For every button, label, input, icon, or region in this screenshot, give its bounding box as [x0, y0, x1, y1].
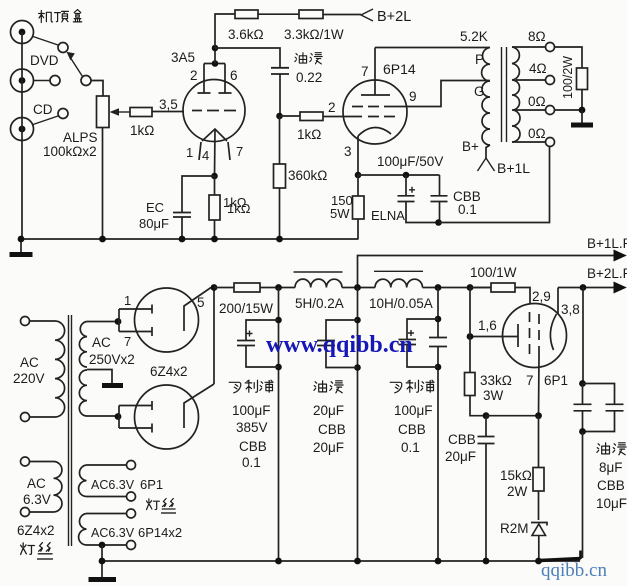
svg-text:7: 7	[236, 144, 243, 159]
hand-drawn thick rail end	[540, 551, 581, 561]
ground rail node at EC cap	[179, 236, 186, 243]
selector common contact	[81, 76, 91, 86]
filament winding AC6.3V for 6Z4	[30, 462, 62, 513]
node speaker return	[579, 107, 586, 114]
choke 5H/0.2A	[294, 272, 343, 288]
wire 6P1 cathode pin 7 down	[538, 356, 541, 416]
node 3A5 plate B+	[212, 45, 219, 52]
svg-text:100/1W: 100/1W	[470, 265, 517, 280]
B+2L off-page arrow	[361, 9, 373, 21]
svg-text:2W: 2W	[507, 484, 528, 499]
wire heater tap to bottom rail	[101, 545, 103, 561]
wire rectifier node to 200/15W	[214, 287, 234, 289]
svg-text:2: 2	[190, 68, 198, 83]
choke 10H/0.05A	[374, 271, 423, 287]
capacitor 油浸 0.22 coupling	[271, 68, 289, 116]
svg-text:5: 5	[197, 295, 205, 310]
wire feedback to OPT secondary 0Ω	[439, 147, 550, 223]
RCA jack J1 set-top box input	[11, 21, 34, 44]
svg-text:B+1L.R: B+1L.R	[587, 236, 627, 251]
terminal 0Ω upper	[546, 106, 555, 115]
svg-text:AC6.3V: AC6.3V	[91, 478, 135, 492]
mains terminal lower	[21, 413, 30, 422]
svg-text:G: G	[474, 84, 485, 99]
wire 3A5 plate node up to B+ feed rail	[215, 14, 235, 48]
capacitor CBB 0.1 in line	[429, 338, 447, 347]
svg-text:7: 7	[124, 334, 131, 349]
terminal 6P1 heater lower	[127, 492, 136, 501]
ground speaker return	[571, 110, 593, 125]
svg-text:33kΩ: 33kΩ	[480, 373, 512, 388]
label 1kΩ double-printed	[223, 195, 251, 216]
ground rail node at jacks	[18, 236, 25, 243]
svg-text:4: 4	[202, 148, 209, 163]
tube 3A5 envelope	[183, 80, 245, 142]
svg-text:CD: CD	[33, 102, 53, 117]
svg-text:20μF: 20μF	[313, 440, 344, 455]
node heater winding ground tap	[99, 542, 106, 549]
svg-text:6P14: 6P14	[383, 61, 416, 77]
resistor 15kΩ/2W	[533, 416, 544, 520]
label 油浸 20μF CBB 20μF	[313, 381, 346, 455]
capacitor CBB 10μF right branch	[583, 384, 624, 432]
svg-text:3: 3	[344, 144, 352, 159]
svg-text:6P1: 6P1	[544, 373, 568, 388]
node B+2 output	[580, 284, 587, 291]
6Z4 no.2 filament bracket	[119, 401, 152, 433]
label CBB 0.1	[453, 189, 481, 217]
node 3A5 plate top	[212, 60, 219, 67]
node HV lower to rectifier 2	[115, 413, 122, 420]
selector arm with arrowhead pointing to contact 1	[67, 52, 83, 77]
svg-text:7: 7	[526, 373, 534, 388]
rectifier 6Z4 no.2 envelope	[135, 385, 199, 449]
svg-text:5.2K: 5.2K	[460, 29, 488, 44]
wire 6P14 cathode pin 3 down	[357, 136, 359, 175]
6P1 beam plate arc	[550, 314, 556, 350]
svg-text:www.qqibb.cn: www.qqibb.cn	[266, 332, 413, 358]
wire plate node to coupling cap	[215, 48, 280, 67]
resistor 3.3kΩ/1W	[299, 10, 323, 19]
node cap3 top	[435, 316, 442, 323]
node cap2 top	[354, 317, 361, 324]
B+2 output wire	[558, 287, 615, 289]
filter column 1 wire	[278, 288, 280, 562]
6P14 grid2 dashed row with pin 9 takeoff	[352, 81, 490, 107]
ground rail node at pot	[99, 236, 106, 243]
svg-text:3A5: 3A5	[171, 50, 195, 65]
svg-text:CBB: CBB	[398, 422, 426, 437]
label AC 220V	[13, 355, 45, 386]
node output caps bottom	[579, 428, 586, 435]
node bias network left	[483, 412, 490, 419]
label 33kΩ 3W	[480, 373, 512, 403]
HV secondary center tap to ground	[87, 370, 123, 386]
terminal 4Ω	[546, 76, 555, 85]
svg-text:B+2L.R: B+2L.R	[587, 266, 627, 281]
resistor 150/5W cathode	[353, 175, 365, 240]
wire 3.3k to B+2L arrow	[323, 14, 361, 16]
resistor 33kΩ/3W	[465, 337, 487, 416]
node HV upper to rectifier 1	[115, 318, 122, 325]
svg-text:CBB: CBB	[318, 422, 346, 437]
6P1 grid3 dashed electrode	[538, 314, 540, 356]
svg-text:0.1: 0.1	[458, 202, 477, 217]
filament winding AC6.3V for 6P14x2	[79, 514, 127, 546]
label AC 250Vx2	[89, 335, 135, 367]
label 150 5W	[330, 193, 353, 221]
node rail heater tap	[99, 558, 106, 565]
svg-text:ALPS: ALPS	[63, 130, 98, 145]
ground rail node at 1k cathode	[211, 236, 218, 243]
6P14 plate bar and feed	[361, 48, 390, 96]
HV secondary AC250Vx2 lower winding	[79, 370, 118, 416]
node 6P14 cathode	[355, 172, 362, 179]
svg-text:B+: B+	[462, 139, 479, 154]
node ELNA top	[403, 172, 410, 179]
svg-text:6: 6	[230, 68, 238, 83]
terminal 6P14 heater lower	[127, 541, 136, 550]
svg-text:1kΩ: 1kΩ	[227, 201, 251, 216]
svg-text:0Ω: 0Ω	[528, 94, 546, 109]
filter column 2 wire	[357, 288, 359, 562]
svg-text:100μF/50V: 100μF/50V	[377, 154, 443, 169]
3A5 grid dashed line	[192, 110, 236, 112]
terminal 8Ω	[546, 43, 555, 52]
svg-text:P: P	[475, 52, 484, 67]
node screen feed column	[467, 284, 474, 291]
svg-text:8μF: 8μF	[599, 460, 623, 475]
svg-text:7: 7	[361, 64, 369, 79]
terminal 6.3V lower	[21, 508, 30, 517]
svg-text:10H/0.05A: 10H/0.05A	[369, 296, 433, 311]
selector contact 1	[58, 43, 68, 53]
svg-text:20μF: 20μF	[313, 403, 344, 418]
svg-text:0.1: 0.1	[242, 455, 261, 470]
svg-text:1kΩ: 1kΩ	[130, 123, 154, 138]
svg-text:200/15W: 200/15W	[219, 301, 273, 316]
OPT core laminations	[502, 47, 507, 142]
wire coupling node to 1kΩ grid stopper 6P14	[280, 115, 301, 117]
6P14 cathode dome	[358, 127, 391, 136]
bottom ground rail	[102, 560, 580, 562]
svg-text:6.3V: 6.3V	[23, 492, 51, 507]
label ALPS 100kΩx2	[43, 130, 98, 159]
wire selector common to volume pot	[91, 81, 103, 97]
6P14 grid1 dashed row	[346, 116, 395, 118]
3A5 filament cathode V	[202, 129, 227, 141]
3A5 pin 7 stub	[228, 142, 230, 160]
svg-text:100kΩx2: 100kΩx2	[43, 144, 97, 159]
capacitor 飞利浦 100μF/385V loop	[237, 320, 279, 367]
node coupling to grid	[276, 113, 283, 120]
resistor 1kΩ 3A5 cathode	[209, 176, 220, 239]
wire 6P14 plate to OPT primary P	[375, 47, 490, 49]
svg-text:220V: 220V	[13, 371, 45, 386]
svg-text:B+2L: B+2L	[377, 9, 411, 25]
wire choke1 to choke2	[342, 287, 375, 289]
svg-text:1: 1	[186, 145, 193, 160]
svg-text:20μF: 20μF	[445, 449, 476, 464]
svg-text:100/2W: 100/2W	[561, 56, 575, 99]
tube 6P14 envelope	[343, 80, 407, 144]
node cap1 top	[275, 317, 282, 324]
wire B+2 out column down to output caps	[582, 288, 584, 384]
resistor 100/2W load	[577, 68, 588, 90]
wire secondary taps	[512, 47, 546, 142]
label 飞利浦 100μF CBB 0.1	[390, 380, 434, 455]
wire bias node to cathode column	[486, 415, 539, 417]
svg-text:3.3kΩ/1W: 3.3kΩ/1W	[284, 27, 344, 42]
node filter cap 1 column	[275, 284, 282, 291]
node rail col1	[275, 558, 282, 565]
svg-text:1,6: 1,6	[478, 318, 497, 333]
svg-text:385V: 385V	[236, 420, 268, 435]
3A5 plate structure pins 2,6	[198, 64, 232, 94]
power transformer core	[69, 315, 72, 546]
resistor 1kΩ grid stopper 3A5	[130, 108, 152, 117]
6Z4 no.1 plate	[184, 288, 211, 332]
terminal 0Ω lower	[546, 138, 555, 147]
node B+1 takeoff	[354, 284, 361, 291]
wire cathode node to EC cap	[182, 176, 215, 212]
label CBB 20μF	[445, 432, 476, 464]
wire 1kΩ to 3A5 grid	[152, 111, 184, 113]
bottom rail ground symbol	[89, 561, 117, 580]
resistor 3.6kΩ	[235, 10, 258, 19]
wire load resistor to 0Ω node	[581, 90, 583, 111]
resistor 100/1W screen feed	[470, 283, 530, 303]
svg-text:R2M: R2M	[500, 521, 529, 536]
wire 6Z4 no.2 plate to B+ node	[213, 288, 215, 385]
6Z4 no.1 filament bracket pins 1,7	[119, 305, 152, 337]
wire J1 to selector contact 1	[33, 37, 58, 46]
selector contact 2	[50, 76, 60, 86]
wire plate 3,8 to B+2 out	[557, 288, 559, 315]
ground rail node at 360k	[276, 236, 283, 243]
label 飞利浦 100μF 385V CBB 0.1	[229, 380, 273, 470]
node rectifier output	[211, 284, 218, 291]
wire screen column down	[469, 288, 471, 337]
svg-text:1: 1	[124, 293, 131, 308]
potentiometer ALPS 100kΩx2	[97, 96, 110, 128]
6Z4 no.2 plate	[184, 384, 214, 428]
node rail bias cap	[483, 558, 490, 565]
wire 200/15W to choke 1	[260, 287, 295, 289]
label AC 6.3V	[23, 476, 51, 507]
svg-text:CBB: CBB	[448, 432, 476, 447]
wire output caps to bottom rail	[582, 432, 584, 559]
wire B+ end to B+1L arrow	[486, 145, 490, 158]
svg-text:9: 9	[409, 89, 417, 104]
label 15kΩ 2W	[500, 468, 532, 499]
terminal 6P14 heater upper	[127, 509, 136, 518]
terminal 6P1 heater upper	[127, 461, 136, 470]
svg-text:EC: EC	[146, 200, 164, 215]
wire grid1 feed	[470, 336, 518, 338]
B+1L feed arrow	[478, 158, 495, 171]
svg-text:3,8: 3,8	[561, 302, 580, 317]
svg-text:6Z4x2: 6Z4x2	[17, 523, 55, 538]
label 灯丝 heaters	[147, 499, 177, 514]
svg-text:B+1L: B+1L	[497, 160, 530, 176]
power transformer primary AC220V winding	[30, 321, 65, 417]
pot wiper arrow	[110, 108, 131, 116]
svg-text:80μF: 80μF	[139, 216, 169, 231]
svg-text:8Ω: 8Ω	[528, 29, 546, 44]
B+1 rail arrow	[614, 250, 627, 262]
tube 6P1 envelope	[503, 304, 567, 368]
capacitor CBB 20μF bias	[478, 416, 495, 561]
svg-text:AC: AC	[92, 335, 111, 350]
OPT secondary winding	[512, 47, 520, 142]
svg-text:AC6.3V: AC6.3V	[91, 526, 135, 540]
resistor 360kΩ grid leak	[274, 116, 286, 239]
resistor 200/15W	[234, 283, 260, 292]
B+2 rail arrow	[614, 282, 627, 294]
svg-text:0.22: 0.22	[296, 70, 322, 85]
wire cathode node right	[358, 174, 440, 176]
svg-text:4Ω: 4Ω	[529, 61, 547, 76]
6P1 screen dashed electrode	[529, 312, 531, 354]
node rail cathode column	[535, 558, 542, 565]
svg-text:0Ω: 0Ω	[528, 126, 546, 141]
svg-text:10μF: 10μF	[596, 496, 627, 511]
label EC 80μF	[139, 200, 169, 231]
svg-text:qqibb.cn: qqibb.cn	[541, 560, 607, 581]
OPT primary winding	[482, 48, 490, 146]
svg-text:5W: 5W	[330, 206, 350, 221]
svg-text:2: 2	[328, 100, 336, 115]
diode R2M	[531, 523, 547, 562]
svg-text:3.6kΩ: 3.6kΩ	[228, 27, 264, 42]
resistor 1kΩ 6P14 grid	[300, 112, 323, 121]
3A5 pin 1 stub	[199, 142, 201, 160]
node rail col3	[435, 558, 442, 565]
label 油浸 0.22	[295, 53, 322, 85]
wire jack ground bus down to ground rail	[21, 32, 23, 239]
svg-text:360kΩ: 360kΩ	[288, 168, 327, 183]
svg-text:6Z4x2: 6Z4x2	[150, 364, 188, 379]
svg-text:5H/0.2A: 5H/0.2A	[295, 296, 344, 311]
node cap3 bottom	[435, 364, 442, 371]
capacitor CBB 0.1 cathode bypass	[431, 175, 448, 223]
selector contact 3	[58, 109, 68, 119]
svg-text:3,5: 3,5	[159, 97, 178, 112]
node cap1 bottom	[275, 364, 282, 371]
node cap2 bottom	[354, 364, 361, 371]
svg-text:2,9: 2,9	[532, 289, 551, 304]
svg-text:ELNA: ELNA	[371, 208, 405, 223]
svg-text:AC: AC	[20, 355, 39, 370]
svg-text:CBB: CBB	[597, 478, 625, 493]
filter column 3 wire with CBB 0.1 in line	[437, 288, 439, 562]
wire 0Ω tap to node	[555, 109, 583, 111]
wire between 3.6k and 3.3k	[258, 13, 299, 15]
wire J3 to selector contact 3	[33, 116, 58, 125]
ground rail upper with ground symbol	[10, 239, 359, 255]
label 油浸 8μF CBB 10μF	[596, 443, 627, 511]
B+1 rail wire	[358, 256, 616, 288]
terminal 6.3V upper	[21, 457, 30, 466]
wire 3A5 cathode pin 4 down	[214, 129, 217, 176]
wire choke2 to B+2 network	[423, 287, 492, 289]
HV secondary AC250Vx2 upper winding	[79, 322, 118, 368]
capacitor 油浸 20μF loop	[317, 320, 358, 368]
svg-text:100μF: 100μF	[232, 403, 271, 418]
node 3A5 cathode	[211, 173, 218, 180]
svg-text:6P14x2: 6P14x2	[138, 525, 182, 540]
label 灯丝 6Z4	[21, 543, 53, 559]
capacitor EC 80μF	[173, 213, 191, 240]
label 机顶盒 (set-top box)	[39, 10, 82, 23]
capacitor 油浸 8μF left branch	[574, 384, 592, 432]
svg-text:CBB: CBB	[239, 439, 267, 454]
mains terminal upper	[21, 317, 30, 326]
svg-text:0.1: 0.1	[401, 440, 420, 455]
svg-text:3W: 3W	[483, 388, 504, 403]
node filter cap 3 column	[435, 284, 442, 291]
wire plate to B+ node	[214, 48, 216, 64]
node rail col2	[354, 558, 361, 565]
wire pot bottom to ground rail	[102, 128, 104, 240]
svg-text:6P1: 6P1	[140, 477, 163, 492]
RCA jack J3 CD input	[11, 118, 34, 141]
svg-text:15kΩ: 15kΩ	[500, 468, 532, 483]
rectifier 6Z4 no.1 envelope	[135, 288, 199, 352]
node grid1 column	[467, 333, 474, 340]
node cathode column	[535, 412, 542, 419]
RCA jack J2 DVD input	[11, 69, 34, 92]
svg-text:1kΩ: 1kΩ	[297, 127, 321, 142]
node output caps top	[579, 380, 586, 387]
svg-text:250Vx2: 250Vx2	[89, 352, 135, 367]
node feedback junction	[435, 219, 442, 226]
wire 8Ω tap to load resistor	[555, 47, 583, 68]
svg-text:AC: AC	[27, 476, 46, 491]
wire 1kΩ to 6P14 grid	[323, 116, 346, 118]
6P1 grid1 bar	[517, 324, 519, 347]
filament winding AC6.3V for 6P1	[79, 465, 127, 497]
capacitor 飞利浦 100μF loop	[399, 319, 439, 367]
capacitor ELNA 100μF/50V	[398, 175, 439, 223]
svg-text:100μF: 100μF	[394, 403, 433, 418]
wire J2 to selector contact 2	[34, 80, 51, 82]
svg-text:DVD: DVD	[30, 53, 59, 68]
